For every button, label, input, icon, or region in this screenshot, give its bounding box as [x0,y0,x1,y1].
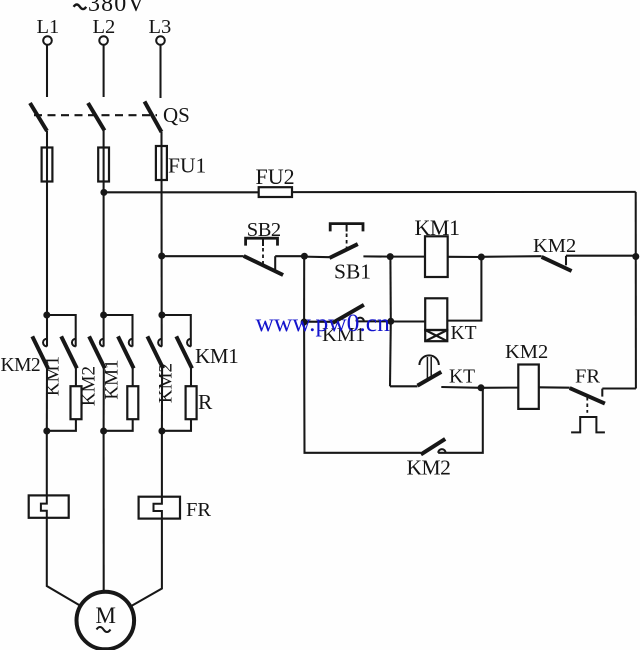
node SB2-SB1 junction [301,253,308,260]
wire L1 to QS [46,45,48,97]
wire ph3 main contact down [161,366,163,431]
coil KM2 [518,365,539,409]
contact KM2 main ph3 arc [158,339,162,347]
wire row B left node down to row D [304,322,421,453]
resistor R ph3 [186,386,197,419]
contact FR NC fixed tick [601,389,603,397]
resistor branch ph3 wire [190,366,192,386]
wire node to KM2 NC [481,255,541,258]
wire row B right node down [389,321,392,386]
wire SB1 to node [363,255,390,257]
resistor branch ph2 wire [132,366,134,386]
wire KM1 aux to node [356,320,390,322]
wire ph1 main contact down [46,366,48,431]
svg-text:L1: L1 [37,16,60,38]
wire ph1 heater to motor [47,518,80,606]
svg-text:SB1: SB1 [334,260,371,284]
wire node to SB1 [304,256,329,259]
svg-text:KT: KT [449,367,475,388]
svg-text:KM1: KM1 [415,215,460,240]
resistor ph1 [71,386,82,419]
phase3 branch wire [162,315,191,347]
node row B right [387,318,394,325]
contact KM2 main ph2 blade [89,336,105,368]
switch QS link dashed [34,114,157,116]
terminal L2 [99,36,108,45]
svg-text:KM1: KM1 [195,344,238,368]
contact KM2 NC fixed tick [565,256,567,265]
contact KT delay symbol arc [419,355,438,365]
contact KM1 main ph3 blade [176,336,192,368]
contact KM2 main ph1 arc [43,339,47,347]
svg-text:M: M [96,603,116,628]
node row B left [301,319,308,326]
motor tilde [97,627,111,632]
fuse FU1 phase3 [156,146,167,180]
contact KM2 main ph3 blade [147,336,163,368]
node KM1 coil right [478,254,485,261]
wire resistor ph3 bottom [162,419,191,431]
pushbutton SB2 actuator bracket [246,238,278,245]
wire ph3 heater to motor [131,519,162,606]
svg-text:KM2: KM2 [407,456,451,480]
svg-text:380V: 380V [88,0,146,17]
wire control rail right [292,191,636,193]
fuse FU1 phase2 [98,148,109,182]
wire FR to right rail [602,387,636,389]
coil KM1 [425,236,448,277]
wire row B left to KM1 aux [304,321,333,323]
thermal relay FR heater ph1 [29,495,69,517]
contact FR NC blade [570,388,605,404]
wire resistor ph2 bottom [104,419,133,431]
node phase1 bottom [43,428,50,435]
pushbutton SB2 NC blade [244,256,283,275]
pushbutton SB1 actuator bracket [330,224,363,232]
svg-text:KM2: KM2 [78,366,99,406]
thermal relay FR heater ph3 [139,497,180,519]
wire QS to FU1 phase2 and down [103,131,105,347]
pushbutton SB1 stem [346,224,348,232]
node right rail row A [632,253,639,260]
node L2 control tap [100,189,107,196]
switch QS pole 3 blade [145,102,162,133]
wire SB2 node down [303,256,305,322]
svg-text:KM2: KM2 [533,235,576,257]
terminal L1 [43,36,52,45]
pushbutton SB1 NO blade [329,244,357,258]
wire KT coil right up to row A node [447,257,481,321]
wire control rail left [104,191,259,193]
wire SB1 node down [389,257,391,322]
phase2 branch wire [104,315,133,347]
wire SB2 to node [275,255,304,257]
contact KM2 NC blade [542,257,572,271]
svg-text:FU2: FU2 [256,164,295,189]
contact KM2 main ph1 blade [32,336,48,368]
fuse FU2 [259,187,292,197]
fuse FU1 phase1 [42,148,53,182]
wire KM1 coil to node [448,256,482,258]
label ~380V tilde [74,5,87,10]
wire to KT contact [390,385,418,387]
node L3 control tap [158,253,165,260]
contact KM1 main ph2 arc [129,339,133,347]
wire KM2 coil to FR [539,386,570,388]
node row C junction [478,384,485,391]
switch QS pole 1 blade [30,103,47,131]
contact KM1 NO aux fixed bump [356,318,364,322]
svg-text:KM2: KM2 [1,355,41,376]
node phase3 top [158,312,165,319]
contact KT delayed NO blade [418,372,442,386]
wire KM2 aux up to row C node [438,388,483,453]
wire ph2 main contact down [103,366,105,431]
node phase2 top [100,312,107,319]
svg-text:www.pw0.cn: www.pw0.cn [256,308,391,337]
svg-text:R: R [198,390,213,414]
contact KM2 main ph2 arc [100,339,104,347]
wire ph1 down to FR heater [46,431,48,495]
wire ph2 down to motor [103,431,105,592]
FR thermal dashed link [586,397,588,413]
svg-text:FR: FR [186,499,211,521]
wire L2 to QS [103,45,105,97]
wire L3 to QS [159,45,161,98]
motor M circle [77,592,135,650]
contact KM2 NO aux fixed bump [438,449,445,453]
pushbutton SB2 fixed contact tick [274,256,276,271]
FR thermal element symbol [571,417,605,432]
wire node to KT coil [391,320,425,322]
svg-text:KM2: KM2 [156,363,177,403]
wire node to KM2 coil [481,387,518,389]
wire ph3 down to FR heater [161,431,163,497]
contact KM1 main ph3 arc [187,339,191,347]
wire rail to SB2 [162,255,244,257]
wire node to KM1 coil [390,256,425,258]
svg-text:KM1: KM1 [43,356,64,396]
svg-text:SB2: SB2 [247,219,281,241]
switch QS pole 2 blade [88,103,105,131]
contact KM1 main ph1 blade [61,336,77,368]
terminal L3 [156,36,165,45]
coil KT body [425,298,447,330]
svg-text:L2: L2 [93,16,116,38]
phase1 branch wire [47,315,76,347]
node phase2 bottom [100,428,107,435]
contact KM1 main ph2 blade [118,336,134,368]
node phase3 bottom [158,428,165,435]
svg-text:KM2: KM2 [505,341,548,363]
resistor ph2 [127,386,138,419]
wire KT contact to node [441,386,481,389]
contact KM1 main ph1 arc [72,339,76,347]
node SB1 right junction [387,253,394,260]
coil KT delay box with X [425,330,447,341]
wire KM2 NC to right rail [566,255,636,257]
svg-text:KT: KT [451,323,477,344]
svg-text:L3: L3 [149,16,172,38]
wire resistor ph1 bottom [47,419,76,431]
wire QS to FU1 phase3 and down [160,132,162,347]
contact KM2 NO aux blade [421,439,445,455]
pushbutton SB2 stem [262,238,264,246]
svg-text:QS: QS [163,103,190,127]
svg-text:FU1: FU1 [168,154,206,178]
resistor branch ph1 wire [75,366,77,386]
contact KM1 NO aux blade [333,305,364,323]
wire right rail down [635,192,637,389]
svg-text:FR: FR [575,366,600,388]
wire QS to FU1 phase1 and down to KM2 contact [46,131,48,347]
node phase1 top [43,312,50,319]
